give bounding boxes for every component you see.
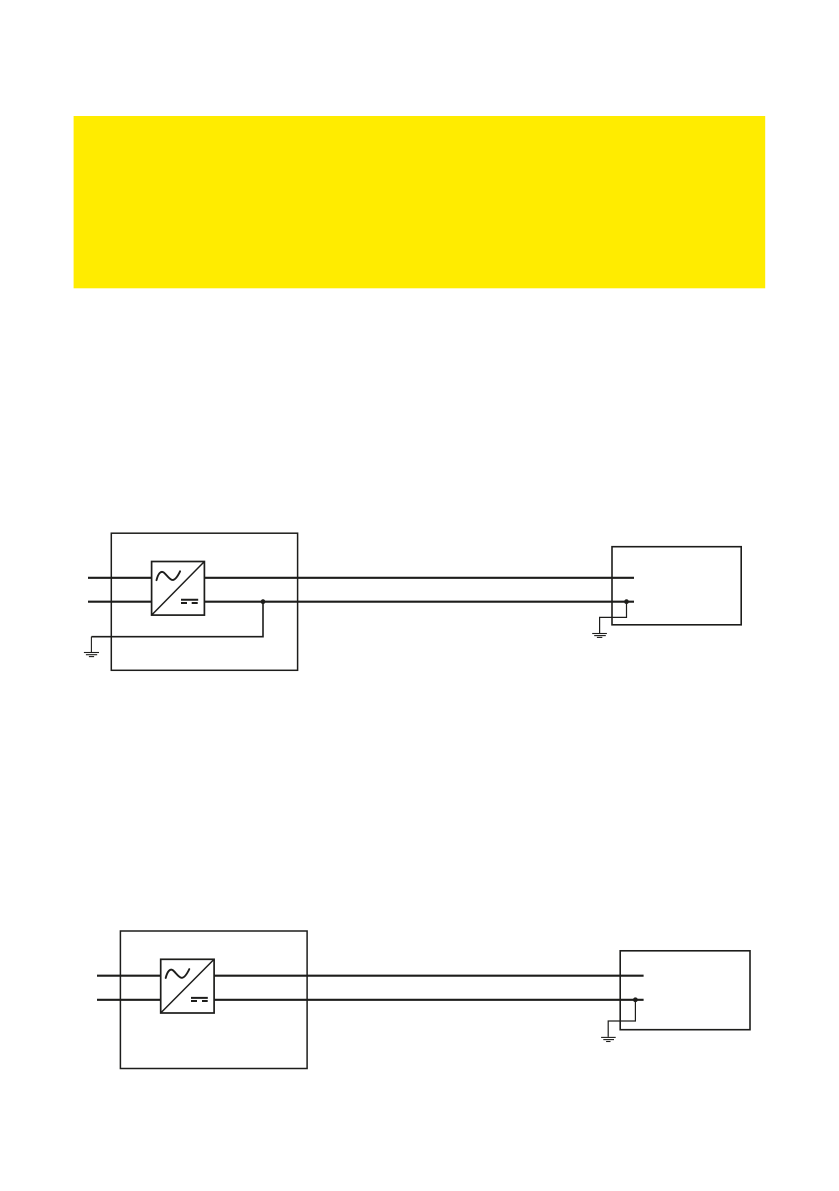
power supply enclosure (bottom diagram) — [120, 931, 307, 1069]
wire: earth drop (top diagram, PSU side) — [90, 637, 92, 653]
wire: line input L (bottom diagram, left segment) — [97, 975, 161, 977]
node: ground junction at load (bottom diagram) — [633, 997, 638, 1002]
AC/DC converter U2 body (bottom diagram) — [161, 959, 214, 1013]
power supply enclosure (top diagram) — [111, 533, 297, 670]
U1 DC symbol (dashed bar) — [181, 602, 198, 604]
node: ground junction inside PSU (top diagram) — [261, 599, 266, 604]
U2 diagonal divider — [161, 960, 213, 1013]
U2 DC symbol (dashed bar) — [191, 1000, 208, 1002]
wire: DC output + (top diagram, to load) — [204, 577, 634, 579]
ground (load chassis earth, top diagram) — [592, 634, 607, 638]
AC/DC converter U1 body (top diagram) — [152, 562, 205, 616]
U1 DC symbol (solid bar) — [181, 599, 198, 601]
ground (load chassis earth, bottom diagram) — [601, 1037, 616, 1041]
load enclosure (bottom diagram) — [620, 951, 750, 1030]
wire: line input N (bottom diagram, left segment) — [97, 999, 161, 1001]
node: ground junction at load (top diagram) — [624, 599, 629, 604]
wire: load ground jog (bottom diagram) — [608, 1000, 635, 1037]
U2 DC symbol (solid bar) — [191, 997, 208, 999]
wire: DC output + (bottom diagram, to load) — [214, 975, 643, 977]
wire: PSU ground run (junction to chassis earth) — [91, 602, 263, 637]
U2 AC sine symbol — [166, 969, 190, 978]
wire: DC output - (top diagram, to load) — [204, 601, 634, 603]
wire: load ground jog (top diagram) — [600, 602, 627, 634]
U1 diagonal divider — [152, 562, 204, 614]
wire: line input L (top diagram, left segment) — [88, 577, 152, 579]
U1 AC sine symbol — [157, 571, 181, 580]
wire: DC output - (bottom diagram, to load) — [214, 999, 643, 1001]
load enclosure (top diagram) — [612, 547, 741, 625]
wire: line input N (top diagram, left segment) — [88, 601, 152, 603]
ground (PSU chassis earth, top diagram) — [84, 653, 99, 657]
note highlight (yellow redacted text block) — [74, 116, 766, 288]
